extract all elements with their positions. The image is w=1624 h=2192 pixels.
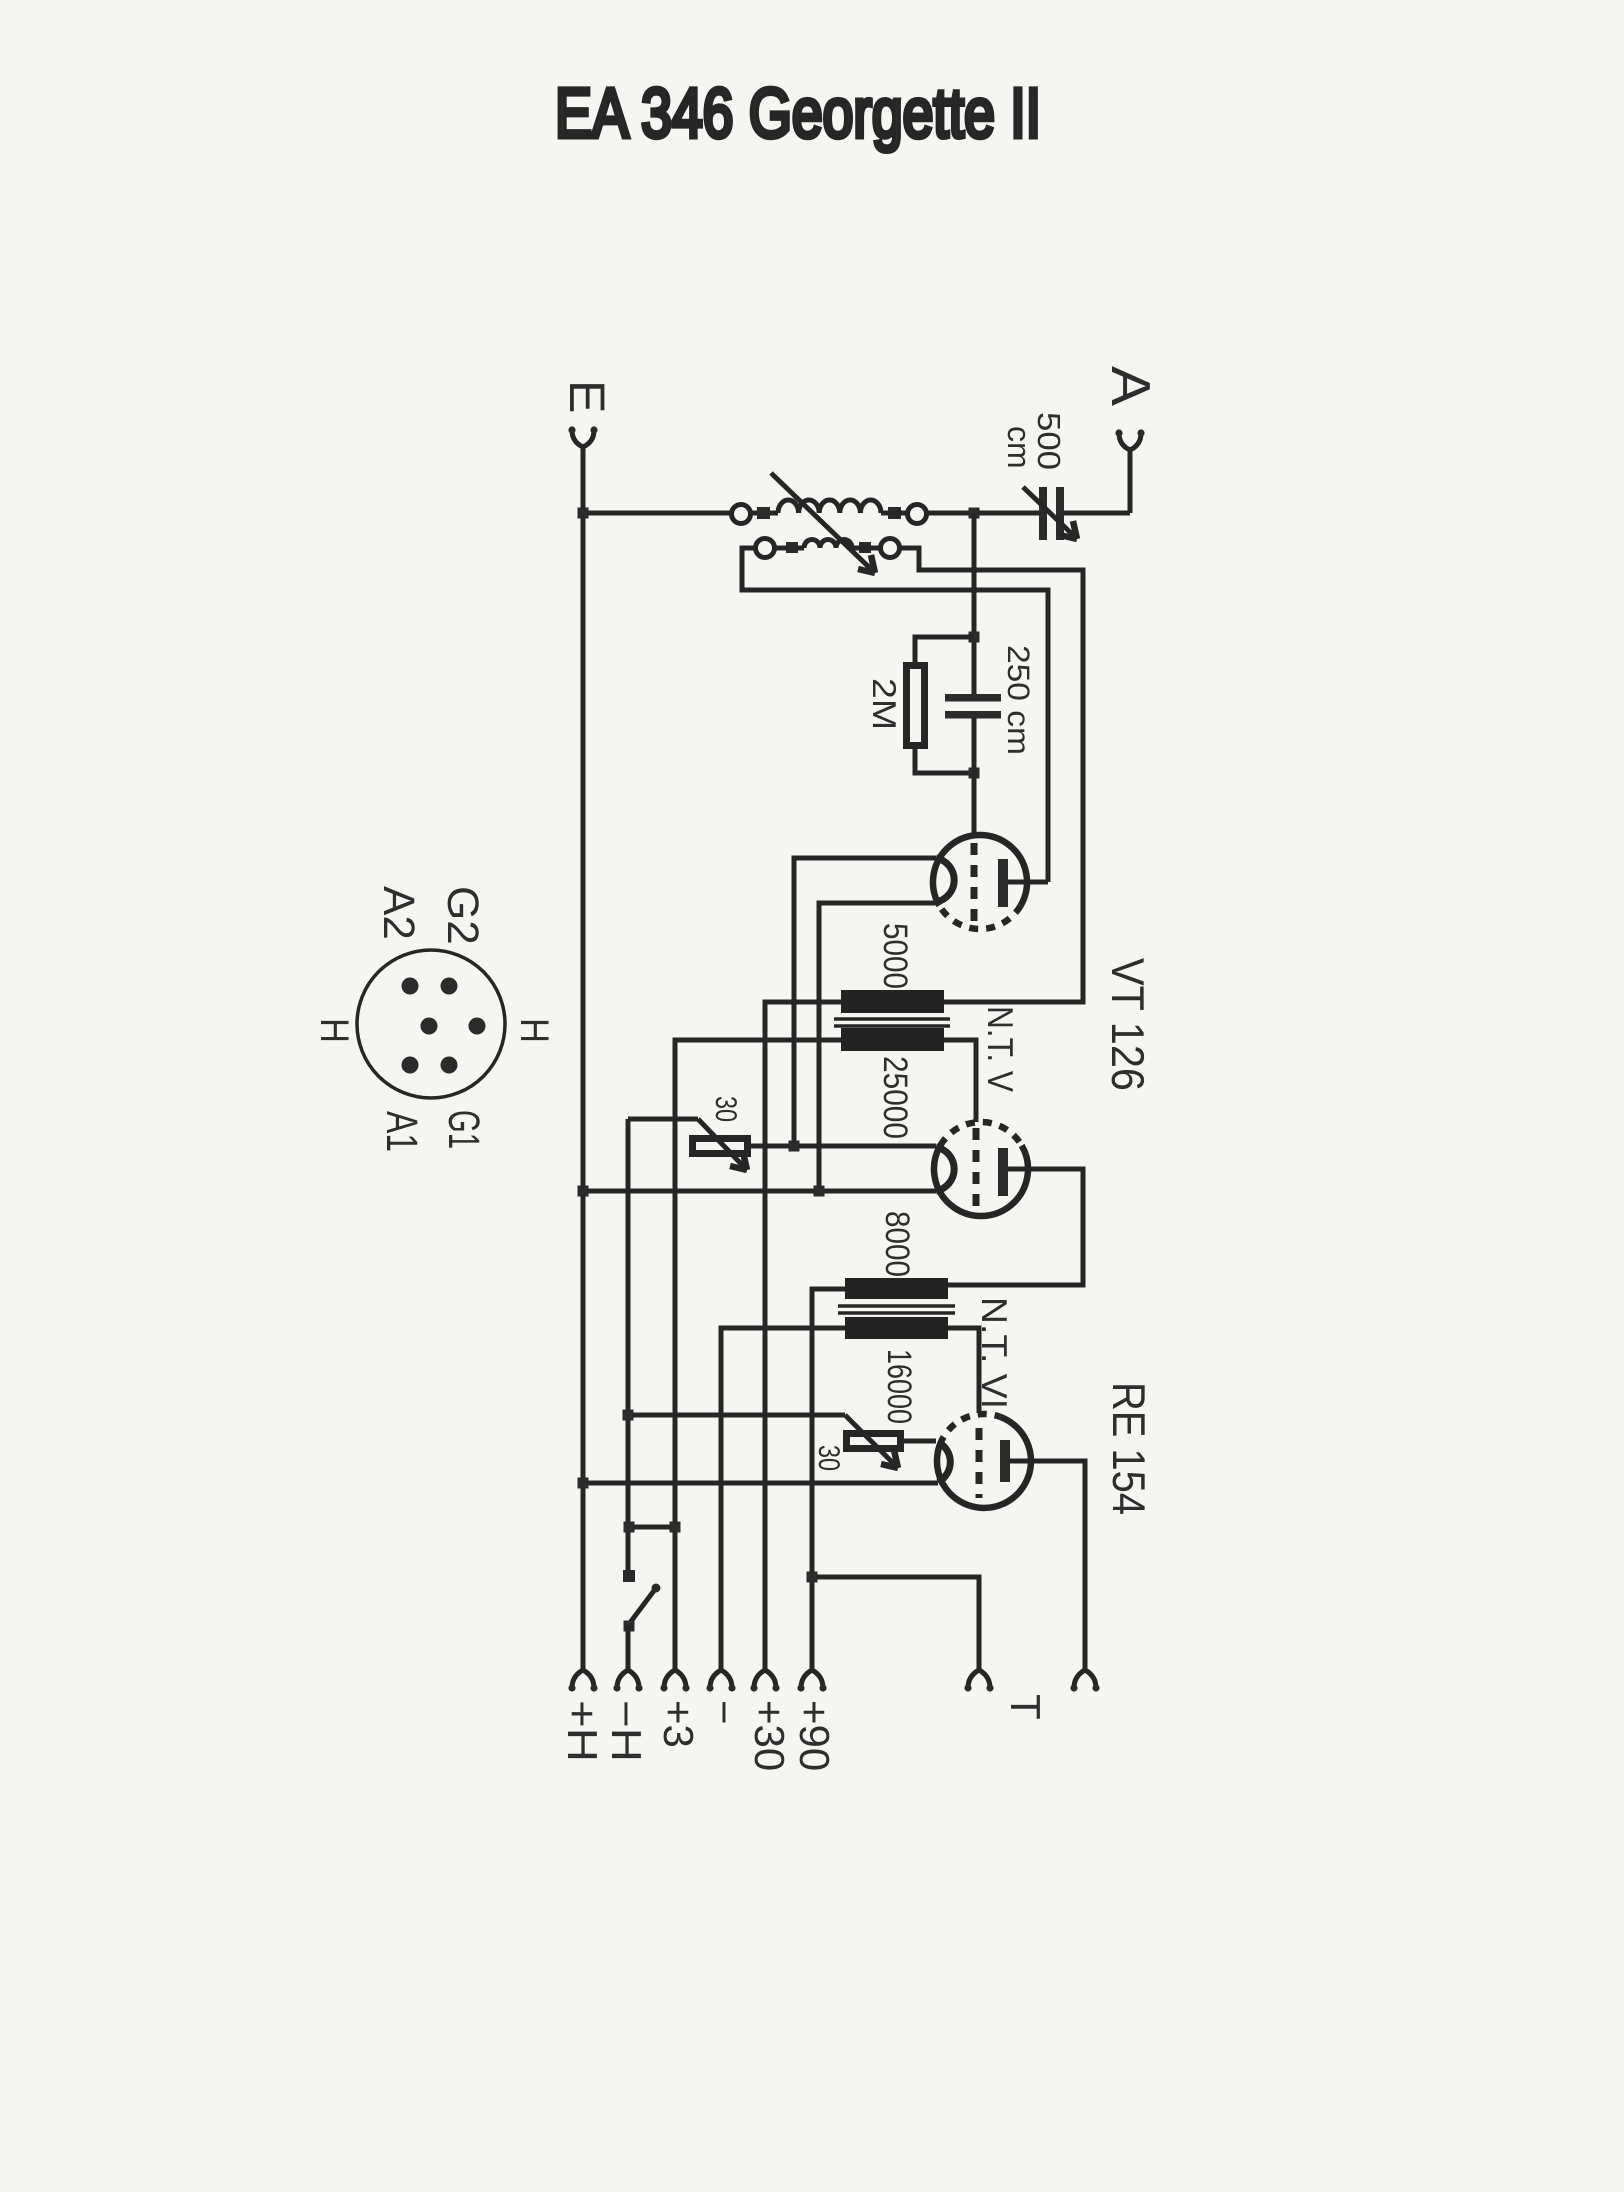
node -H P2 (623, 1410, 634, 1421)
svg-text:H: H (312, 1018, 356, 1043)
tube V3 triode envelope (937, 1414, 1031, 1508)
wire grid lead V1 upper (972, 513, 977, 694)
wire A stem (1128, 449, 1133, 513)
wire +90 to T1 (812, 1577, 979, 1669)
node link left (624, 1522, 635, 1533)
terminal +3 (660, 1670, 689, 1692)
svg-text:E: E (559, 380, 615, 413)
switch S1 contact (623, 1570, 635, 1582)
anode V1 (998, 859, 1008, 907)
grid V2 (973, 1128, 980, 1210)
link -H to +3 (629, 1525, 675, 1530)
wire coil to C1 (926, 511, 1039, 516)
wire NT.VI secondary left to minus (721, 1328, 845, 1669)
variometer arrow (771, 473, 875, 573)
terminal T1 (964, 1670, 993, 1692)
svg-text:16000: 16000 (880, 1349, 918, 1424)
label 500 cm (1001, 412, 1067, 470)
svg-text:G2: G2 (438, 886, 487, 945)
svg-text:+H: +H (559, 1700, 606, 1762)
tube V2 triode envelope (934, 1122, 1028, 1216)
tube socket diagram (357, 950, 505, 1098)
wire grid lead V1 lower (972, 718, 977, 838)
terminal E (559, 380, 615, 447)
reaction coil L2 (756, 539, 900, 558)
node +90 T (807, 1572, 818, 1583)
cathode V1 (936, 858, 954, 902)
svg-text:H: H (512, 1018, 556, 1043)
transformer NT.V secondary (841, 1028, 944, 1051)
node E bus V3 filament (578, 1478, 589, 1489)
wire NT.V primary left to +30 (765, 1002, 841, 1669)
node filament bottom (814, 1186, 825, 1197)
wire antenna E to coil (583, 511, 731, 516)
node E bus filament (578, 1186, 589, 1197)
terminal T2 (1070, 1670, 1099, 1692)
wire filament bottom bus (583, 1189, 936, 1194)
wire anode V2 to NT.VI primary (948, 1169, 1083, 1285)
svg-text:+30: +30 (746, 1700, 793, 1771)
svg-text:8000: 8000 (878, 1211, 916, 1277)
wire E bus (581, 446, 586, 1669)
potentiometer P2 30 (845, 1415, 936, 1468)
variable inductor L1 (732, 500, 927, 524)
svg-text:30: 30 (709, 1096, 742, 1122)
wire NT.V secondary right to grid V2 (944, 1040, 976, 1122)
grid V1 (971, 843, 978, 922)
switch S1 blade (629, 1588, 656, 1624)
terminal +H (568, 1670, 597, 1692)
potentiometer P1 30 (628, 1119, 936, 1170)
wire -H to P2 wiper (628, 1413, 845, 1418)
node grid-leak top (969, 632, 980, 643)
transformer NT.V core (834, 1019, 950, 1026)
svg-text:cm: cm (1001, 426, 1037, 469)
terminal A (1100, 366, 1162, 450)
svg-text:EA 346 Georgette II: EA 346 Georgette II (555, 74, 1041, 152)
node E-antenna junction (578, 508, 589, 519)
resistor R1 2M (907, 637, 975, 773)
terminal +90 (797, 1670, 826, 1692)
wire filament bottom V3 (583, 1481, 938, 1486)
svg-text:25000: 25000 (876, 1056, 914, 1139)
anode V3 (1000, 1440, 1010, 1482)
capacitor C2 250cm (945, 694, 1001, 719)
wire NT.V secondary left to +3 (675, 1040, 841, 1669)
svg-text:A: A (1100, 366, 1162, 406)
wire C1 to A (1064, 511, 1130, 516)
wire L2 right to NT.V primary right (899, 548, 1083, 1002)
svg-text:250 cm: 250 cm (1001, 645, 1036, 755)
wire L2 left to V1 anode (742, 548, 1048, 882)
svg-text:N.T. V: N.T. V (980, 1006, 1021, 1092)
wire NT.VI secondary right to grid V3 (948, 1328, 979, 1413)
node grid-leak bottom (969, 768, 980, 779)
svg-text:−H: −H (603, 1700, 650, 1762)
terminal -H (613, 1670, 642, 1692)
svg-text:RE 154: RE 154 (1103, 1382, 1155, 1515)
wire -H bus upper (626, 1119, 631, 1576)
transformer NT.VI core (838, 1306, 955, 1313)
svg-text:30: 30 (812, 1445, 845, 1471)
terminal +30 (750, 1670, 779, 1692)
terminal - (706, 1670, 735, 1692)
transformer NT.VI primary (845, 1278, 948, 1299)
node P1 filament bus (789, 1141, 800, 1152)
wire -H lower (626, 1624, 631, 1669)
svg-text:A1: A1 (377, 1111, 426, 1152)
svg-text:+3: +3 (655, 1700, 702, 1748)
wire anode V1 (1008, 880, 1048, 885)
transformer NT.V primary (841, 990, 944, 1013)
node switch base (624, 1621, 635, 1632)
svg-text:T: T (1002, 1694, 1049, 1720)
svg-text:5000: 5000 (876, 923, 914, 989)
wire filament top V1 (794, 858, 936, 1146)
svg-text:VT 126: VT 126 (1102, 958, 1154, 1091)
cathode V3 (938, 1442, 950, 1482)
svg-text:2M: 2M (866, 678, 903, 730)
transformer NT.VI secondary (845, 1317, 948, 1339)
node link right (670, 1522, 681, 1533)
anode V2 (998, 1148, 1008, 1196)
wire filament bottom V1 (819, 903, 936, 1191)
cathode V2 (936, 1147, 954, 1191)
svg-text:−: − (701, 1700, 748, 1725)
wire NT.VI primary left to +90 (812, 1289, 845, 1669)
node antenna junction (969, 508, 980, 519)
tube V1 triode envelope (933, 835, 1027, 929)
variable capacitor C1 500cm (1023, 487, 1077, 540)
svg-text:G1: G1 (439, 1110, 488, 1149)
wire anode V3 to T2 (1010, 1461, 1085, 1669)
svg-text:A2: A2 (374, 886, 423, 940)
svg-text:+90: +90 (791, 1700, 838, 1771)
grid V3 (976, 1428, 983, 1498)
